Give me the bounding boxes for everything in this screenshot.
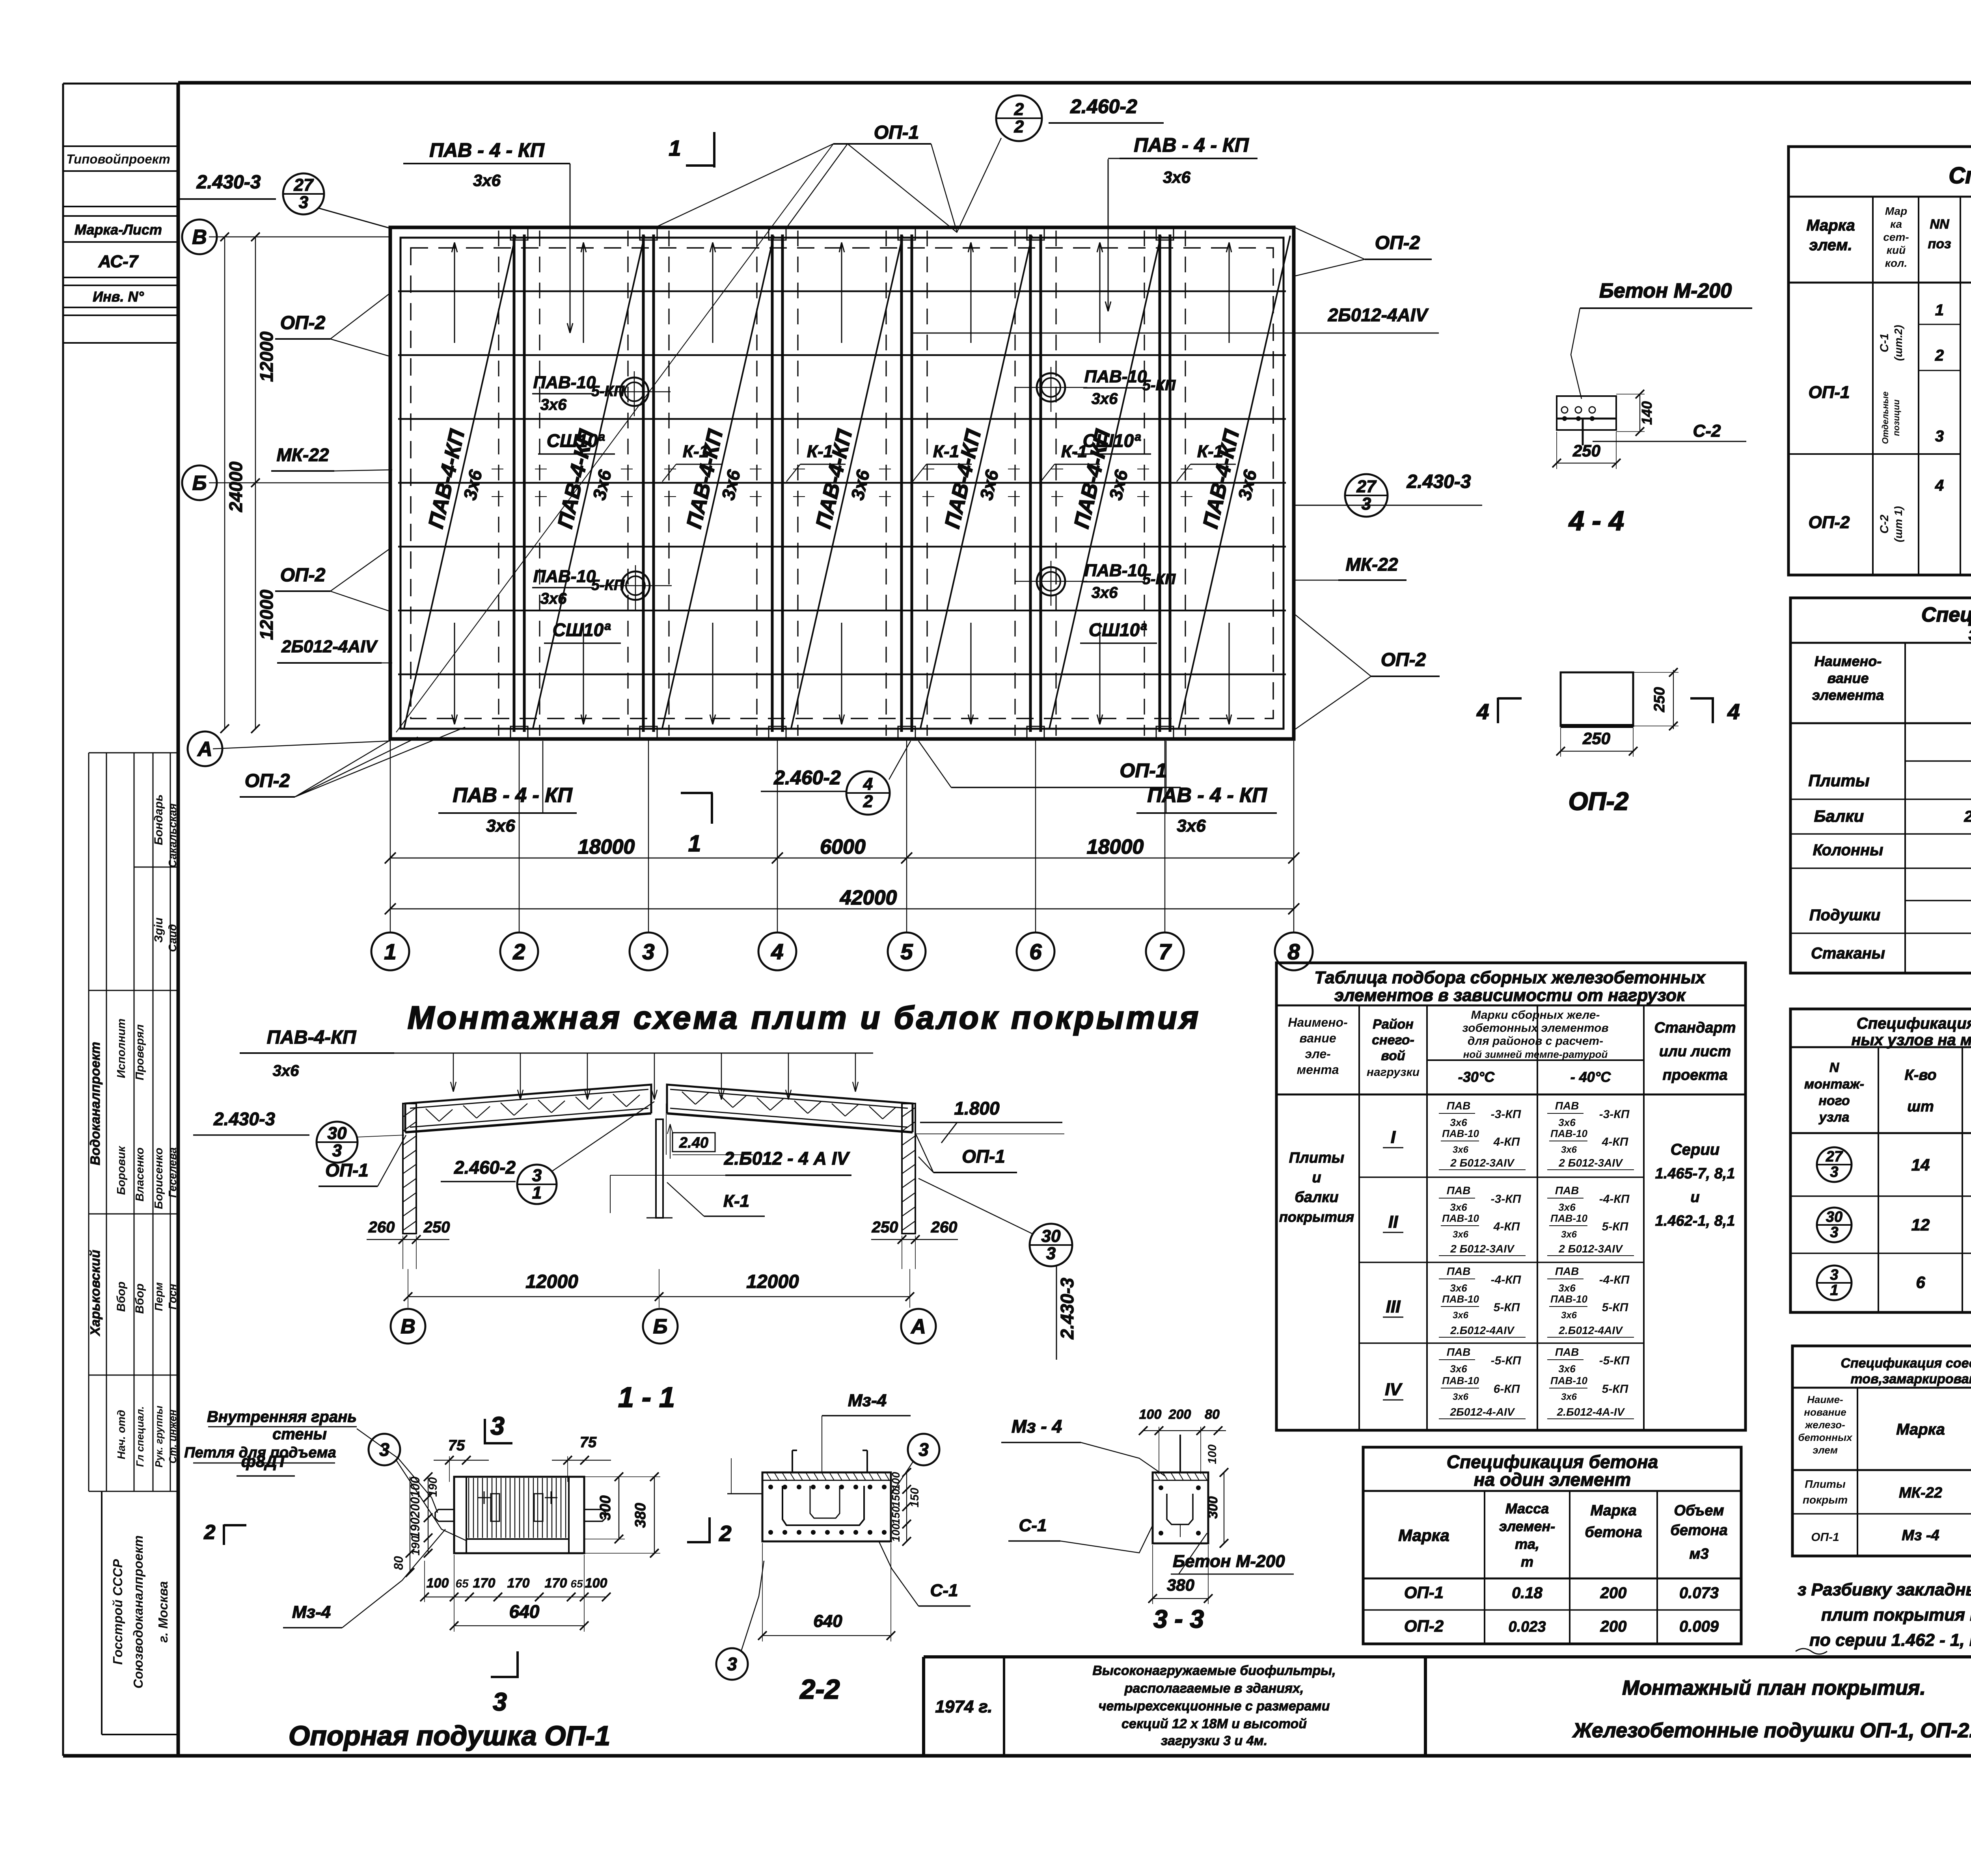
svg-text:Борисенко: Борисенко <box>153 1148 165 1209</box>
svg-text:ПАВ-10: ПАВ-10 <box>1442 1293 1479 1305</box>
svg-text:К-1: К-1 <box>683 442 709 461</box>
svg-text:5-КП: 5-КП <box>1142 377 1176 394</box>
svg-text:5-КП: 5-КП <box>1494 1301 1520 1314</box>
svg-text:ПАВ-10: ПАВ-10 <box>1442 1128 1479 1139</box>
svg-text:г. Москва: г. Москва <box>156 1581 170 1643</box>
svg-text:С-1: С-1 <box>1019 1516 1047 1535</box>
table T2 rows <box>1790 798 1971 800</box>
svg-text:ОП-1: ОП-1 <box>1811 1531 1839 1544</box>
detail 3-3 body <box>1153 1472 1208 1543</box>
sidebar signature table <box>88 753 89 1491</box>
detail OP-1 anchor crosses <box>478 1497 490 1498</box>
section 1-1 wall base dims <box>367 1239 449 1240</box>
detail 2-2 rebar dots <box>768 1485 773 1489</box>
svg-text:2.430-3: 2.430-3 <box>213 1109 275 1129</box>
svg-text:для районов с расчет-: для районов с расчет- <box>1468 1035 1603 1048</box>
svg-text:260: 260 <box>368 1219 395 1236</box>
svg-text:100: 100 <box>890 1472 902 1490</box>
detail OP-1 top dims 75 <box>434 1460 489 1461</box>
svg-text:100: 100 <box>427 1576 449 1591</box>
plan outer walls <box>390 227 1294 739</box>
svg-text:Мар: Мар <box>1885 205 1907 217</box>
svg-text:18000: 18000 <box>578 836 635 858</box>
detail 4-4 label C-2 <box>1593 441 1746 442</box>
svg-text:покрыт: покрыт <box>1803 1494 1848 1506</box>
svg-text:элемен-: элемен- <box>1499 1518 1555 1534</box>
svg-text:загрузки 3 и 4м.: загрузки 3 и 4м. <box>1161 1733 1268 1748</box>
svg-text:250: 250 <box>872 1219 898 1236</box>
svg-text:4: 4 <box>1476 699 1489 724</box>
svg-text:3: 3 <box>642 939 654 964</box>
svg-text:2Б012-4-АIV: 2Б012-4-АIV <box>1449 1406 1515 1418</box>
svg-text:150: 150 <box>890 1489 902 1507</box>
svg-text:Монтажная схема плит и б: Монтажная схема плит и балок покрытия <box>408 1000 1201 1036</box>
svg-text:А: А <box>910 1315 926 1338</box>
title block frame <box>924 1655 1971 1658</box>
svg-text:Мз - 4: Мз - 4 <box>1012 1416 1062 1437</box>
svg-text:3: 3 <box>727 1654 737 1674</box>
svg-text:2: 2 <box>863 792 873 811</box>
svg-text:6-КП: 6-КП <box>1494 1383 1520 1396</box>
svg-text:100: 100 <box>890 1523 902 1542</box>
svg-text:ПАВ-10: ПАВ-10 <box>533 567 596 586</box>
svg-text:4: 4 <box>1727 699 1740 724</box>
section 1-1 middle column K-1 <box>656 1119 663 1218</box>
detail 2-2 left section ticks <box>727 1493 763 1494</box>
svg-text:2.Б012-4А-IV: 2.Б012-4А-IV <box>1557 1406 1625 1418</box>
svg-text:Подушки: Подушки <box>1809 906 1880 924</box>
svg-text:Б: Б <box>192 472 207 495</box>
svg-text:Балки: Балки <box>1814 807 1864 825</box>
svg-text:Наиме-: Наиме- <box>1807 1394 1843 1405</box>
svg-text:эле-: эле- <box>1305 1047 1331 1061</box>
svg-text:ПАВ: ПАВ <box>1447 1184 1471 1197</box>
svg-text:3: 3 <box>1830 1267 1838 1283</box>
svg-text:2.430-3: 2.430-3 <box>1057 1278 1077 1340</box>
detail 3-3 bottom dim 380 <box>1153 1598 1208 1599</box>
svg-text:3: 3 <box>332 1141 342 1160</box>
svg-text:С-1: С-1 <box>930 1581 958 1600</box>
svg-text:элементов в зависимости от н: элементов в зависимости от нагрузок <box>1334 986 1686 1005</box>
svg-text:3: 3 <box>299 193 308 212</box>
svg-text:Спецификация сборных жел: Спецификация сборных железобетонных <box>1921 603 1971 626</box>
svg-text:2Б012-4АIV: 2Б012-4АIV <box>1328 305 1429 325</box>
svg-text:Стаканы: Стаканы <box>1811 945 1885 962</box>
table T7 rows <box>1792 1513 1971 1515</box>
svg-text:1: 1 <box>1935 301 1944 319</box>
svg-text:ОП-2: ОП-2 <box>1404 1617 1444 1635</box>
svg-text:ПАВ-10: ПАВ-10 <box>1550 1375 1587 1387</box>
svg-text:4: 4 <box>771 939 783 964</box>
svg-text:27: 27 <box>1356 477 1377 496</box>
svg-text:Серии: Серии <box>1671 1141 1720 1158</box>
svg-text:ПАВ - 4 - КП: ПАВ - 4 - КП <box>1134 134 1249 156</box>
svg-text:А: А <box>197 738 212 761</box>
svg-text:ПАВ: ПАВ <box>1555 1100 1579 1112</box>
svg-text:1.465-7, 8,1: 1.465-7, 8,1 <box>1655 1165 1735 1182</box>
svg-text:Спецификация стали на одно изд: Спецификация стали на одно изделие <box>1949 163 1971 188</box>
svg-text:2.430-3: 2.430-3 <box>1407 471 1471 492</box>
svg-text:С-2: С-2 <box>1693 421 1721 441</box>
svg-text:СШ10ª: СШ10ª <box>1083 430 1141 451</box>
section 1-1 arrow header line <box>394 1053 873 1054</box>
svg-text:К-1: К-1 <box>933 442 959 461</box>
svg-text:3х6: 3х6 <box>273 1062 299 1079</box>
table T4 row1 <box>1817 1147 1852 1182</box>
svg-text:ОП-1: ОП-1 <box>325 1160 369 1180</box>
svg-text:МК-22: МК-22 <box>1899 1485 1942 1501</box>
row axis line B <box>209 482 390 484</box>
svg-text:12000: 12000 <box>256 331 277 382</box>
svg-text:поз: поз <box>1928 236 1951 251</box>
svg-text:1: 1 <box>1830 1282 1838 1299</box>
table T4 row3 <box>1817 1266 1852 1300</box>
svg-text:3: 3 <box>493 1688 507 1716</box>
detail 2-2 U rebar <box>782 1486 864 1525</box>
svg-text:3х6: 3х6 <box>540 396 567 413</box>
svg-text:1974 г.: 1974 г. <box>935 1697 992 1716</box>
detail OP-1 pad hatch <box>468 1478 469 1538</box>
svg-text:3х6: 3х6 <box>1453 1229 1469 1240</box>
svg-text:Инв. N°: Инв. N° <box>93 288 144 305</box>
svg-text:Власенко: Власенко <box>134 1147 146 1201</box>
svg-text:бетона: бетона <box>1585 1524 1642 1541</box>
svg-text:покрытия: покрытия <box>1279 1209 1354 1225</box>
svg-text:Масса: Масса <box>1505 1500 1549 1517</box>
svg-text:и: и <box>1312 1169 1321 1186</box>
svg-text:1: 1 <box>532 1183 542 1202</box>
svg-text:Марка: Марка <box>1896 1421 1945 1438</box>
svg-text:зобетонных элементов: зобетонных элементов <box>1462 1022 1608 1035</box>
section mark 1 top <box>686 164 714 167</box>
svg-text:Район: Район <box>1373 1017 1414 1032</box>
svg-text:-5-КП: -5-КП <box>1491 1354 1522 1367</box>
svg-text:1: 1 <box>669 136 681 160</box>
svg-text:элемента: элемента <box>1812 687 1884 703</box>
svg-text:Марка: Марка <box>1590 1502 1636 1519</box>
svg-text:8: 8 <box>1287 939 1300 964</box>
svg-text:-30°С: -30°С <box>1458 1069 1495 1085</box>
svg-text:2.460-2: 2.460-2 <box>773 767 841 789</box>
detail 4-4 dim 250 <box>1557 463 1616 463</box>
svg-text:ПАВ-10: ПАВ-10 <box>533 373 596 392</box>
svg-text:элем.: элем. <box>1809 236 1852 254</box>
detail OP-1 right dims <box>618 1477 619 1539</box>
svg-text:Саид: Саид <box>166 924 179 952</box>
detail OP-1 section 2 marks <box>223 1524 225 1545</box>
svg-text:4: 4 <box>1935 477 1944 494</box>
svg-text:3: 3 <box>490 1412 505 1440</box>
svg-text:з Разбивку закладных марок: з Разбивку закладных марок в балках для … <box>1798 1580 1971 1599</box>
column grid drop lines <box>390 739 391 932</box>
svg-text:вание: вание <box>1299 1031 1336 1045</box>
svg-text:3х6: 3х6 <box>1561 1310 1577 1321</box>
section 1-1 row circles <box>391 1309 425 1344</box>
svg-text:4 - 4: 4 - 4 <box>1568 505 1624 536</box>
svg-text:3: 3 <box>1935 428 1944 445</box>
section 1-1 roof slab right half <box>667 1085 913 1132</box>
svg-text:Петля для подъема: Петля для подъема <box>184 1444 336 1461</box>
svg-text:12000: 12000 <box>746 1271 799 1292</box>
svg-text:5: 5 <box>900 939 913 964</box>
svg-text:ПАВ: ПАВ <box>1447 1100 1471 1112</box>
svg-text:170: 170 <box>473 1576 496 1591</box>
svg-text:3х6: 3х6 <box>1558 1282 1576 1294</box>
detail OP-1 section 3 mark top <box>484 1419 486 1444</box>
svg-text:80: 80 <box>391 1556 406 1570</box>
svg-text:5-КП: 5-КП <box>1602 1383 1629 1396</box>
svg-text:2.460-2: 2.460-2 <box>454 1157 516 1178</box>
svg-text:Плиты: Плиты <box>1805 1478 1846 1490</box>
svg-text:380: 380 <box>632 1503 649 1528</box>
svg-text:5-КП: 5-КП <box>1602 1220 1629 1233</box>
svg-text:250: 250 <box>423 1219 450 1236</box>
detail 3-3 top dims 100 200 80 <box>1143 1430 1226 1431</box>
svg-text:ных узлов на монтажную схему: ных узлов на монтажную схему <box>1851 1031 1971 1049</box>
svg-text:Проверял: Проверял <box>134 1024 146 1080</box>
svg-text:Спецификация марок монтаж-: Спецификация марок монтаж- <box>1857 1015 1971 1032</box>
svg-text:ПАВ-10: ПАВ-10 <box>1550 1212 1587 1224</box>
detail 2-2 right dims <box>906 1472 907 1541</box>
svg-text:ОП-2: ОП-2 <box>1381 650 1426 670</box>
svg-text:12000: 12000 <box>525 1271 578 1292</box>
svg-text:3х6: 3х6 <box>1453 1392 1469 1402</box>
svg-text:Типовойпроект: Типовойпроект <box>66 152 170 166</box>
svg-text:6: 6 <box>1916 1273 1925 1292</box>
svg-text:узла: узла <box>1818 1110 1850 1125</box>
svg-text:элементов на монтажную с: элементов на монтажную схему <box>1968 622 1971 645</box>
svg-text:ОП-1: ОП-1 <box>1404 1583 1444 1602</box>
svg-text:7: 7 <box>1159 939 1172 964</box>
section 1-1 thin level lines <box>915 1133 1064 1134</box>
svg-text:170: 170 <box>545 1576 567 1591</box>
svg-text:4-КП: 4-КП <box>1493 1135 1520 1148</box>
vertical dimension 12000/12000 <box>255 237 256 729</box>
section 1-1 right wall hatched <box>902 1104 915 1234</box>
sidebar top boxes <box>64 145 178 147</box>
svg-text:ОП-1: ОП-1 <box>962 1146 1005 1167</box>
sidebar gosstroy box <box>101 1491 102 1735</box>
detail OP-1 circle 3 callout <box>369 1434 400 1465</box>
svg-text:3х6: 3х6 <box>1163 168 1191 186</box>
svg-text:МК-22: МК-22 <box>276 445 329 465</box>
svg-text:на один элемент: на один элемент <box>1474 1469 1631 1490</box>
svg-text:сет-: сет- <box>1883 231 1909 243</box>
svg-text:150: 150 <box>908 1488 921 1507</box>
detail OP-1 left dims <box>428 1477 428 1553</box>
svg-text:2: 2 <box>512 939 525 964</box>
svg-text:Марка: Марка <box>1398 1526 1449 1545</box>
svg-text:3х6: 3х6 <box>1177 816 1206 836</box>
table T4 frame <box>1790 1009 1971 1312</box>
svg-text:ОП-2: ОП-2 <box>1375 233 1420 253</box>
svg-text:3х6: 3х6 <box>1558 1363 1576 1375</box>
svg-text:640: 640 <box>509 1601 540 1622</box>
svg-text:3х6: 3х6 <box>1092 584 1118 601</box>
svg-text:30: 30 <box>1041 1226 1061 1246</box>
svg-text:Вбор: Вбор <box>115 1282 128 1312</box>
callout circle 27/3 with 2.430-3 right <box>1345 474 1388 517</box>
svg-text:2-2: 2-2 <box>799 1674 840 1705</box>
svg-text:0.073: 0.073 <box>1679 1584 1719 1602</box>
svg-text:К-во: К-во <box>1904 1067 1936 1083</box>
svg-text:м3: м3 <box>1689 1546 1708 1562</box>
svg-text:300: 300 <box>597 1495 614 1520</box>
section 1-1 dim 2.40 box <box>673 1133 715 1152</box>
svg-text:1 - 1: 1 - 1 <box>618 1382 675 1413</box>
svg-text:ПАВ: ПАВ <box>1447 1265 1471 1277</box>
svg-text:Отдельные: Отдельные <box>1880 391 1890 444</box>
svg-text:балки: балки <box>1295 1189 1338 1206</box>
svg-text:200: 200 <box>1600 1618 1627 1635</box>
svg-text:80: 80 <box>1205 1407 1220 1422</box>
svg-text:65: 65 <box>570 1578 583 1590</box>
svg-text:Б: Б <box>653 1315 668 1338</box>
detail OP-1 pad body <box>454 1477 584 1553</box>
svg-text:260: 260 <box>931 1219 958 1236</box>
svg-text:640: 640 <box>813 1612 842 1631</box>
svg-text:2.Б012 - 4 А IV: 2.Б012 - 4 А IV <box>724 1148 850 1169</box>
svg-text:ПАВ-4-КП: ПАВ-4-КП <box>267 1027 357 1048</box>
detail 2-2 circle 3 bottom-left <box>716 1648 748 1680</box>
svg-text:Наимено-: Наимено- <box>1288 1015 1347 1029</box>
svg-text:I: I <box>1391 1128 1396 1147</box>
svg-text:К-1: К-1 <box>807 442 833 461</box>
svg-text:Геселева: Геселева <box>166 1147 179 1198</box>
svg-text:18000: 18000 <box>1087 836 1144 858</box>
table T6 frame <box>1363 1447 1741 1644</box>
detail OP-1 right loop <box>584 1509 605 1521</box>
svg-text:Высоконагружаемые биофильтры,: Высоконагружаемые биофильтры, <box>1092 1663 1336 1678</box>
svg-text:N: N <box>1829 1060 1840 1075</box>
svg-text:3х6: 3х6 <box>540 590 567 607</box>
svg-text:3: 3 <box>532 1166 542 1185</box>
svg-text:Бондарь: Бондарь <box>152 794 165 845</box>
svg-text:3: 3 <box>1046 1244 1056 1263</box>
svg-text:m: m <box>1521 1554 1533 1570</box>
svg-text:4: 4 <box>863 774 873 794</box>
svg-text:5-КП: 5-КП <box>1602 1301 1629 1314</box>
svg-text:Боровик: Боровик <box>115 1146 128 1195</box>
svg-text:или лист: или лист <box>1659 1043 1731 1060</box>
svg-text:Марка: Марка <box>1806 217 1855 234</box>
svg-text:2.460-2: 2.460-2 <box>1070 95 1137 117</box>
sheet frame <box>62 84 64 1756</box>
row axis line V <box>209 236 390 238</box>
table T1 row lines <box>1919 324 1960 325</box>
svg-text:27: 27 <box>1826 1148 1843 1165</box>
svg-text:ПАВ-10: ПАВ-10 <box>1084 367 1147 386</box>
table T1 Spetsifikatsiya stali frame <box>1788 147 1971 575</box>
svg-text:ПАВ - 4 - КП: ПАВ - 4 - КП <box>453 784 573 807</box>
detail OP-1 section 3 mark bottom <box>491 1676 518 1678</box>
svg-text:ПАВ - 4 - КП: ПАВ - 4 - КП <box>1147 784 1267 807</box>
svg-text:ПАВ-10: ПАВ-10 <box>1442 1212 1479 1224</box>
svg-text:2 Б012-3АIV: 2 Б012-3АIV <box>1558 1243 1623 1255</box>
svg-text:3х6: 3х6 <box>1450 1363 1467 1375</box>
svg-text:12000: 12000 <box>256 590 277 640</box>
svg-text:2.Б012 - 4 А IV: 2.Б012 - 4 А IV <box>1964 808 1971 825</box>
svg-text:Вбор: Вбор <box>133 1284 146 1314</box>
table T6 columns <box>1484 1491 1485 1644</box>
svg-text:ПАВ: ПАВ <box>1555 1346 1579 1358</box>
svg-text:Колонны: Колонны <box>1813 841 1883 859</box>
section 1-1 circle 30/3 right rotated 2.430-3 <box>1030 1224 1072 1266</box>
svg-text:1: 1 <box>688 831 701 856</box>
svg-text:3х6: 3х6 <box>1453 1310 1469 1321</box>
svg-text:3: 3 <box>379 1439 389 1460</box>
svg-text:К-1: К-1 <box>723 1191 749 1211</box>
svg-text:1.462-1, 8,1: 1.462-1, 8,1 <box>1655 1213 1735 1229</box>
svg-text:3х6: 3х6 <box>1092 390 1118 408</box>
svg-text:3х6: 3х6 <box>1561 1392 1577 1402</box>
row axis line A <box>213 741 390 749</box>
table T3 frame <box>1276 963 1746 1430</box>
svg-text:монтаж-: монтаж- <box>1804 1077 1864 1092</box>
svg-text:ПАВ-10: ПАВ-10 <box>1442 1375 1479 1387</box>
table T6 rows <box>1363 1609 1741 1611</box>
detail 2-2 body <box>762 1472 891 1541</box>
svg-text:3х6: 3х6 <box>1450 1282 1467 1294</box>
table T3 body rows <box>1359 1176 1644 1178</box>
svg-text:4-КП: 4-КП <box>1602 1135 1629 1148</box>
svg-text:-3-КП: -3-КП <box>1599 1108 1630 1121</box>
svg-text:ПАВ: ПАВ <box>1555 1184 1579 1197</box>
svg-text:Сакальская: Сакальская <box>166 803 179 867</box>
svg-text:4-КП: 4-КП <box>1493 1220 1520 1233</box>
plan bay span arrows <box>454 242 455 343</box>
svg-text:та,: та, <box>1515 1536 1539 1552</box>
detail 4-4 anchor <box>1582 419 1584 445</box>
plan plate joint lines <box>398 290 1286 292</box>
svg-text:ного: ного <box>1818 1093 1850 1108</box>
svg-text:42000: 42000 <box>840 886 897 909</box>
svg-text:ОП-2: ОП-2 <box>1809 513 1850 532</box>
svg-text:150: 150 <box>890 1506 902 1524</box>
svg-text:3х6: 3х6 <box>1450 1117 1467 1128</box>
svg-text:1.800: 1.800 <box>954 1098 1000 1119</box>
svg-text:170: 170 <box>507 1576 530 1591</box>
svg-text:и: и <box>1690 1189 1699 1206</box>
svg-text:Бетон М-200: Бетон М-200 <box>1173 1552 1285 1571</box>
svg-text:3 - 3: 3 - 3 <box>1153 1605 1204 1633</box>
svg-text:С-1: С-1 <box>1878 333 1891 352</box>
svg-text:Плиты: Плиты <box>1808 771 1869 790</box>
svg-text:-3-КП: -3-КП <box>1491 1108 1522 1121</box>
callout circle 2/2 with 2.460-2 top <box>996 95 1042 141</box>
svg-text:СШ10ª: СШ10ª <box>547 430 605 451</box>
svg-text:3х6: 3х6 <box>1561 1229 1577 1240</box>
svg-text:ОП-2: ОП-2 <box>280 565 326 586</box>
svg-text:2.Б012-4АIV: 2.Б012-4АIV <box>1558 1324 1623 1336</box>
svg-text:IV: IV <box>1385 1380 1403 1399</box>
section 1-1 left wall hatched <box>403 1104 416 1234</box>
svg-text:Ст. инжен: Ст. инжен <box>167 1409 179 1463</box>
svg-text:железо-: железо- <box>1804 1419 1845 1431</box>
svg-text:нование: нование <box>1804 1406 1846 1418</box>
svg-text:5-КП: 5-КП <box>1142 571 1176 588</box>
svg-text:III: III <box>1386 1297 1401 1316</box>
svg-text:2.40: 2.40 <box>679 1135 708 1151</box>
row circle A <box>188 731 222 766</box>
svg-text:Плиты: Плиты <box>1289 1150 1344 1166</box>
table T4 rows <box>1790 1195 1971 1197</box>
svg-text:2.430-3: 2.430-3 <box>196 172 261 193</box>
svg-text:200: 200 <box>1168 1407 1191 1422</box>
svg-text:-5-КП: -5-КП <box>1599 1354 1630 1367</box>
svg-text:ОП-1: ОП-1 <box>874 122 919 143</box>
svg-text:3х6: 3х6 <box>1453 1145 1469 1155</box>
